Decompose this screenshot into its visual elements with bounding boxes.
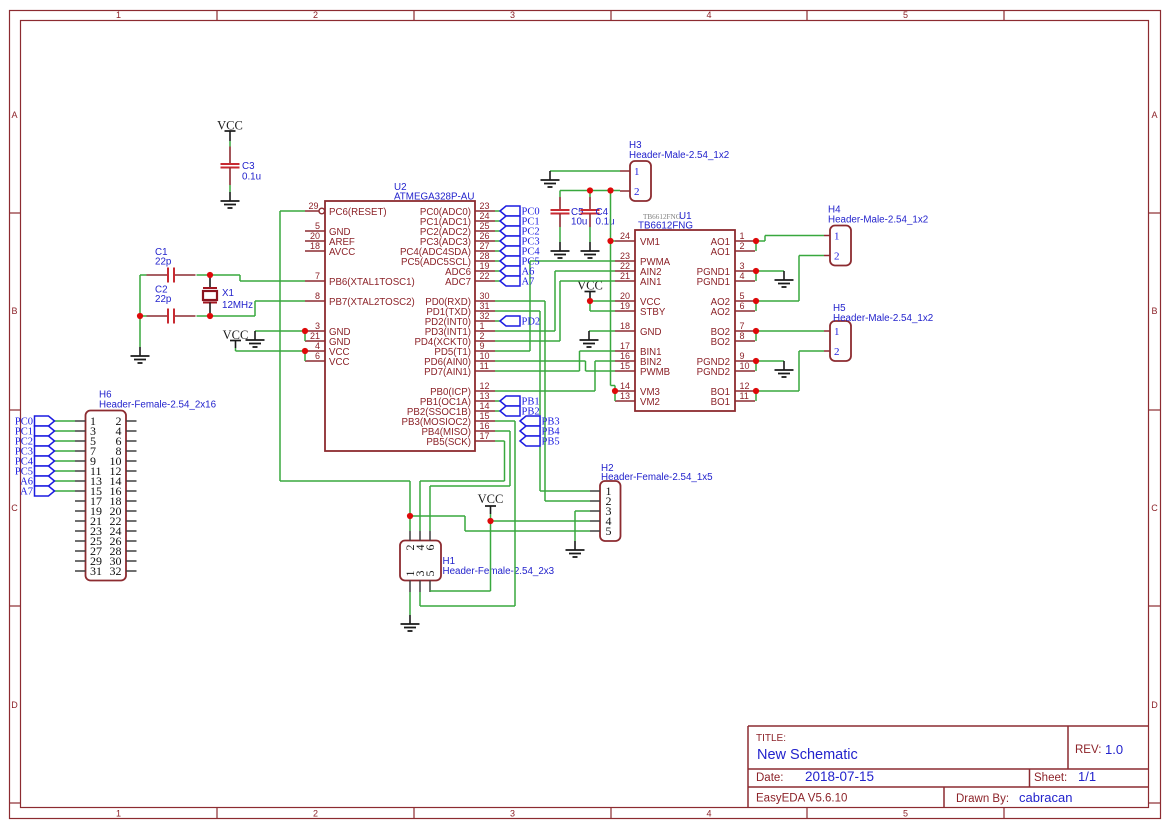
svg-text:3: 3 bbox=[510, 809, 515, 819]
svg-text:6: 6 bbox=[315, 351, 320, 361]
svg-text:VCC: VCC bbox=[329, 357, 349, 368]
svg-text:AO2: AO2 bbox=[711, 307, 730, 318]
svg-text:Header-Male-2.54_1x2: Header-Male-2.54_1x2 bbox=[629, 150, 729, 161]
svg-text:Header-Female-2.54_1x5: Header-Female-2.54_1x5 bbox=[601, 472, 713, 483]
svg-text:16: 16 bbox=[620, 351, 630, 361]
svg-text:Sheet:: Sheet: bbox=[1034, 772, 1067, 784]
svg-text:8: 8 bbox=[315, 291, 320, 301]
svg-text:10u: 10u bbox=[571, 217, 587, 228]
svg-text:PWMB: PWMB bbox=[640, 367, 670, 378]
svg-text:9: 9 bbox=[740, 351, 745, 361]
svg-text:VM2: VM2 bbox=[640, 397, 660, 408]
svg-text:BO1: BO1 bbox=[711, 397, 730, 408]
svg-text:BO2: BO2 bbox=[711, 337, 730, 348]
svg-text:14: 14 bbox=[620, 381, 630, 391]
svg-text:Drawn By:: Drawn By: bbox=[956, 793, 1009, 805]
svg-text:D: D bbox=[1151, 700, 1158, 710]
svg-text:25: 25 bbox=[480, 221, 490, 231]
svg-text:C: C bbox=[1151, 503, 1158, 513]
svg-text:PB5(SCK): PB5(SCK) bbox=[426, 437, 471, 448]
svg-text:1: 1 bbox=[480, 321, 485, 331]
svg-text:8: 8 bbox=[740, 331, 745, 341]
svg-text:22: 22 bbox=[480, 271, 490, 281]
svg-text:1: 1 bbox=[834, 326, 840, 338]
svg-text:Header-Male-2.54_1x2: Header-Male-2.54_1x2 bbox=[833, 313, 933, 324]
svg-text:5: 5 bbox=[606, 524, 612, 538]
svg-text:9: 9 bbox=[480, 341, 485, 351]
svg-text:C3: C3 bbox=[242, 161, 255, 172]
svg-text:A: A bbox=[1151, 110, 1157, 120]
svg-text:10: 10 bbox=[480, 351, 490, 361]
svg-text:12: 12 bbox=[480, 381, 490, 391]
svg-text:27: 27 bbox=[480, 241, 490, 251]
svg-text:2: 2 bbox=[834, 251, 840, 263]
svg-text:PGND1: PGND1 bbox=[697, 277, 730, 288]
svg-text:4: 4 bbox=[706, 10, 711, 20]
svg-text:ADC7: ADC7 bbox=[445, 277, 471, 288]
svg-text:16: 16 bbox=[480, 421, 490, 431]
svg-text:B: B bbox=[1151, 306, 1157, 316]
svg-text:30: 30 bbox=[480, 291, 490, 301]
svg-text:18: 18 bbox=[620, 321, 630, 331]
svg-text:15: 15 bbox=[480, 411, 490, 421]
svg-text:PC6(RESET): PC6(RESET) bbox=[329, 207, 387, 218]
svg-text:AVCC: AVCC bbox=[329, 247, 355, 258]
svg-text:5: 5 bbox=[740, 291, 745, 301]
svg-text:10: 10 bbox=[740, 361, 750, 371]
svg-text:2: 2 bbox=[480, 331, 485, 341]
svg-text:20: 20 bbox=[620, 291, 630, 301]
svg-text:cabracan: cabracan bbox=[1019, 790, 1072, 805]
svg-text:A7: A7 bbox=[522, 277, 535, 288]
svg-text:3: 3 bbox=[740, 261, 745, 271]
svg-text:PD7(AIN1): PD7(AIN1) bbox=[424, 367, 471, 378]
svg-text:2: 2 bbox=[634, 186, 640, 198]
svg-text:Header-Female-2.54_2x3: Header-Female-2.54_2x3 bbox=[443, 566, 555, 577]
svg-text:7: 7 bbox=[740, 321, 745, 331]
svg-text:2: 2 bbox=[740, 241, 745, 251]
svg-text:2: 2 bbox=[313, 10, 318, 20]
svg-text:22p: 22p bbox=[155, 294, 172, 305]
svg-text:REV:: REV: bbox=[1075, 744, 1101, 756]
svg-text:20: 20 bbox=[310, 231, 320, 241]
svg-text:32: 32 bbox=[480, 311, 490, 321]
svg-text:C: C bbox=[11, 503, 18, 513]
svg-text:28: 28 bbox=[480, 251, 490, 261]
svg-text:12: 12 bbox=[740, 381, 750, 391]
svg-text:D: D bbox=[11, 700, 18, 710]
svg-text:22p: 22p bbox=[155, 257, 172, 268]
svg-text:PB6(XTAL1TOSC1): PB6(XTAL1TOSC1) bbox=[329, 277, 415, 288]
svg-text:1.0: 1.0 bbox=[1105, 742, 1123, 757]
svg-text:PD2: PD2 bbox=[522, 317, 541, 328]
svg-text:6: 6 bbox=[423, 545, 437, 551]
svg-text:4: 4 bbox=[315, 341, 320, 351]
svg-text:17: 17 bbox=[620, 341, 630, 351]
svg-text:2018-07-15: 2018-07-15 bbox=[805, 769, 874, 784]
svg-text:PB7(XTAL2TOSC2): PB7(XTAL2TOSC2) bbox=[329, 297, 415, 308]
svg-text:31: 31 bbox=[90, 564, 102, 578]
svg-text:4: 4 bbox=[706, 809, 711, 819]
svg-text:Date:: Date: bbox=[756, 772, 784, 784]
svg-text:0.1u: 0.1u bbox=[242, 172, 261, 183]
svg-text:4: 4 bbox=[740, 271, 745, 281]
svg-text:32: 32 bbox=[110, 564, 122, 578]
svg-text:AIN1: AIN1 bbox=[640, 277, 662, 288]
svg-text:VCC: VCC bbox=[478, 492, 504, 506]
svg-text:New Schematic: New Schematic bbox=[757, 747, 858, 763]
svg-text:TITLE:: TITLE: bbox=[756, 733, 786, 744]
svg-text:5: 5 bbox=[315, 221, 320, 231]
svg-text:7: 7 bbox=[315, 271, 320, 281]
svg-text:AO1: AO1 bbox=[711, 247, 730, 258]
svg-text:5: 5 bbox=[423, 571, 437, 577]
svg-text:TB6612FNG: TB6612FNG bbox=[638, 221, 693, 232]
svg-text:Header-Female-2.54_2x16: Header-Female-2.54_2x16 bbox=[99, 400, 217, 411]
svg-text:23: 23 bbox=[480, 201, 490, 211]
svg-text:1: 1 bbox=[740, 231, 745, 241]
svg-text:PGND2: PGND2 bbox=[697, 367, 730, 378]
svg-text:26: 26 bbox=[480, 231, 490, 241]
svg-text:STBY: STBY bbox=[640, 307, 666, 318]
svg-text:6: 6 bbox=[740, 301, 745, 311]
svg-text:A: A bbox=[11, 110, 17, 120]
svg-text:EasyEDA V5.6.10: EasyEDA V5.6.10 bbox=[756, 793, 847, 805]
svg-text:12MHz: 12MHz bbox=[222, 300, 253, 311]
svg-text:2: 2 bbox=[834, 346, 840, 358]
svg-text:14: 14 bbox=[480, 401, 490, 411]
svg-text:21: 21 bbox=[310, 331, 320, 341]
svg-text:1: 1 bbox=[116, 10, 121, 20]
svg-text:31: 31 bbox=[480, 301, 490, 311]
svg-text:Header-Male-2.54_1x2: Header-Male-2.54_1x2 bbox=[828, 215, 928, 226]
svg-text:VM1: VM1 bbox=[640, 237, 660, 248]
svg-text:13: 13 bbox=[480, 391, 490, 401]
svg-text:GND: GND bbox=[640, 327, 662, 338]
svg-text:1: 1 bbox=[116, 809, 121, 819]
svg-text:29: 29 bbox=[308, 201, 318, 211]
svg-text:3: 3 bbox=[510, 10, 515, 20]
svg-text:19: 19 bbox=[480, 261, 490, 271]
svg-text:11: 11 bbox=[740, 391, 749, 401]
svg-text:3: 3 bbox=[315, 321, 320, 331]
svg-text:22: 22 bbox=[620, 261, 630, 271]
svg-text:5: 5 bbox=[903, 10, 908, 20]
svg-text:5: 5 bbox=[903, 809, 908, 819]
svg-text:A7: A7 bbox=[20, 487, 33, 498]
svg-text:21: 21 bbox=[620, 271, 630, 281]
svg-text:1: 1 bbox=[834, 231, 840, 243]
svg-text:23: 23 bbox=[620, 251, 630, 261]
svg-text:X1: X1 bbox=[222, 288, 234, 299]
svg-text:PB5: PB5 bbox=[542, 437, 560, 448]
svg-text:13: 13 bbox=[620, 391, 630, 401]
svg-text:17: 17 bbox=[480, 431, 490, 441]
svg-text:15: 15 bbox=[620, 361, 630, 371]
svg-text:19: 19 bbox=[620, 301, 630, 311]
svg-text:1: 1 bbox=[634, 166, 640, 178]
svg-text:11: 11 bbox=[480, 361, 489, 371]
svg-text:24: 24 bbox=[620, 231, 630, 241]
svg-text:18: 18 bbox=[310, 241, 320, 251]
svg-text:2: 2 bbox=[313, 809, 318, 819]
svg-text:ATMEGA328P-AU: ATMEGA328P-AU bbox=[394, 192, 474, 203]
svg-text:24: 24 bbox=[480, 211, 490, 221]
svg-text:0.1u: 0.1u bbox=[596, 217, 615, 228]
svg-text:1/1: 1/1 bbox=[1078, 769, 1096, 784]
svg-text:B: B bbox=[11, 306, 17, 316]
